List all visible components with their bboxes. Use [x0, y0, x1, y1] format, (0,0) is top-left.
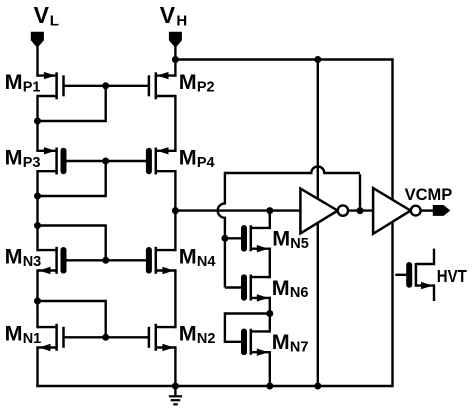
label M_N6: [272, 276, 309, 301]
wire: gate net M_P3-M_P4: [64, 160, 149, 162]
wire: M_N6 gate lead: [225, 286, 244, 288]
svg-text:M: M: [179, 322, 197, 346]
svg-text:M: M: [5, 145, 23, 169]
label M_P4: [179, 145, 215, 170]
svg-text:M: M: [272, 276, 290, 300]
label HVT: [437, 266, 467, 286]
transistor M_N1: [38, 324, 64, 351]
wire: gate net M_N3-M_N4: [64, 259, 149, 261]
label M_P1: [5, 70, 41, 95]
wire: output node down to M_N5 drain: [269, 211, 271, 230]
wire: left rail M_N3 source to M_N1 drain: [36, 269, 38, 328]
svg-text:N4: N4: [197, 254, 216, 270]
wire: right rail V_H to M_P2 source: [174, 47, 176, 77]
wire: M_N5 source to M_N6 drain: [269, 248, 271, 279]
wire: inverter U1 supply/ground vertical: [317, 58, 319, 387]
net label V_H: [160, 2, 187, 29]
svg-text:N3: N3: [23, 254, 42, 270]
svg-text:P1: P1: [23, 80, 41, 96]
svg-text:M: M: [5, 70, 23, 94]
net label V_L: [34, 2, 59, 29]
transistor M_P4: [149, 147, 176, 174]
svg-text:M: M: [5, 322, 23, 346]
svg-text:HVT: HVT: [437, 266, 467, 286]
node U1 output / feedback tap: [357, 207, 364, 214]
label M_N3: [5, 245, 42, 270]
svg-text:N6: N6: [290, 285, 309, 301]
node M_P3 diode: [34, 193, 41, 200]
node V_H / top rail: [172, 56, 179, 63]
node ground junction: [172, 383, 179, 390]
supply flag V_H: [169, 32, 182, 48]
node row1 gate: [102, 82, 109, 89]
wire: M_N5 gate lead: [225, 237, 244, 239]
node M_P1 diode: [34, 118, 41, 125]
wire: ground rail: [36, 385, 392, 387]
wire: M_P1 drain-gate diode loop: [38, 87, 106, 121]
svg-text:P3: P3: [23, 155, 41, 171]
svg-text:N7: N7: [290, 339, 309, 355]
wire: right rail M_P2 drain to M_P4 source: [174, 95, 176, 152]
label M_N1: [5, 322, 42, 347]
svg-text:M: M: [5, 245, 23, 269]
wire: gate net M_N1-M_N2: [64, 336, 149, 338]
wire: feedback horizontal with hop over U1 supply: [225, 167, 360, 174]
svg-text:L: L: [50, 13, 59, 30]
label M_N2: [179, 322, 216, 347]
node row4 gate: [102, 334, 109, 341]
svg-text:M: M: [179, 245, 197, 269]
wire: left rail M_N1 source to ground rail: [36, 346, 38, 387]
wire: M_N7 source to ground rail: [269, 351, 271, 387]
label M_N7: [272, 330, 309, 355]
node row3 gate: [102, 257, 109, 264]
svg-text:P4: P4: [197, 155, 215, 171]
label M_P2: [179, 70, 215, 95]
svg-text:M: M: [179, 70, 197, 94]
wire: M_N7 drain-gate diode loop: [225, 314, 270, 342]
output flag VCMP: [433, 205, 451, 216]
wire: left rail M_P1 drain to M_P3 source: [36, 95, 38, 152]
wire: right rail M_N4 source to M_N2 drain: [174, 269, 176, 328]
transistor M_P3: [38, 147, 64, 174]
svg-text:M: M: [179, 145, 197, 169]
label M_P3: [5, 145, 41, 170]
wire: right rail M_P4 drain through output node to M_N4 drain: [174, 170, 176, 251]
wire: feedback tap up from U1 output: [359, 174, 361, 210]
node U1 ground / rail: [314, 383, 321, 390]
op-amp/inverter U1: [300, 189, 348, 234]
wire: M_N1 drain-gate diode loop: [38, 301, 106, 336]
transistor M_N6: [244, 275, 270, 302]
transistor M_N3: [38, 247, 64, 274]
transistor M_N4: [149, 247, 176, 274]
wire: left rail M_P3 drain to M_N3 drain: [36, 170, 38, 251]
transistor M_P2: [149, 72, 176, 99]
ground: [169, 386, 182, 404]
label M_N5: [272, 227, 309, 252]
svg-text:N5: N5: [290, 236, 309, 252]
wire: inverter U2 output to VCMP flag: [420, 209, 433, 211]
wire: output node to inverter U1 input: [175, 209, 300, 211]
svg-text:V: V: [34, 2, 50, 28]
wire: inverter U2 supply/ground vertical: [391, 58, 393, 387]
transistor M_N2: [149, 324, 176, 351]
svg-text:V: V: [160, 2, 176, 28]
transistor M_N7: [244, 329, 270, 356]
node row2 gate: [102, 158, 109, 165]
transistor HVT legend: [395, 249, 434, 301]
wire: M_N3 drain-gate diode loop: [38, 226, 106, 260]
svg-text:P2: P2: [197, 80, 215, 96]
svg-text:N1: N1: [23, 331, 42, 347]
node M_N5 gate / feedback: [221, 235, 228, 242]
label M_N4: [179, 245, 216, 270]
svg-text:N2: N2: [197, 331, 216, 347]
node M_N1 diode: [34, 298, 41, 305]
supply flag V_L: [31, 32, 44, 48]
svg-text:M: M: [272, 227, 290, 251]
wire: top rail V_H node to inverter supplies: [174, 58, 392, 60]
transistor M_P1: [38, 72, 64, 99]
wire: inverter U1 output to U2 input: [348, 209, 374, 211]
node M_N6 source / M_N7 gate: [266, 310, 273, 317]
wire: M_P3 drain-gate diode loop: [38, 162, 106, 196]
wire: gate net M_P1-M_P2: [64, 85, 149, 87]
wire: left rail V_L to M_P1 source: [36, 47, 38, 77]
wire: feedback vertical with hop over output wire, to M_N5/M_N6 gates: [218, 172, 225, 288]
node node A / M_N5 drain: [266, 207, 273, 214]
transistor M_N5: [244, 225, 270, 252]
node top rail / U1 supply: [314, 56, 321, 63]
node M_N7 source / ground rail: [266, 383, 273, 390]
node output node A: [172, 207, 179, 214]
wire: right rail M_N2 source to ground rail: [174, 346, 176, 387]
op-amp/inverter U2: [373, 188, 421, 234]
wire: M_N6 source to M_N7 drain: [269, 297, 271, 333]
node M_N3 diode: [34, 222, 41, 229]
svg-text:H: H: [176, 13, 187, 30]
svg-text:M: M: [272, 330, 290, 354]
net label VCMP: [405, 186, 453, 204]
svg-text:VCMP: VCMP: [405, 186, 453, 204]
